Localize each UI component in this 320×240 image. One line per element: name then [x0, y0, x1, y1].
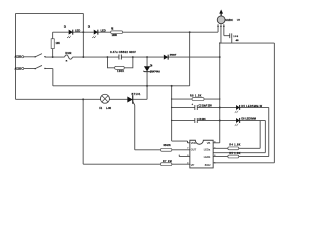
wire row C3 — [172, 119, 261, 121]
svg-text:VDD: VDD — [191, 141, 197, 145]
svg-text:LED: LED — [75, 29, 80, 32]
lamp EL — [99, 94, 111, 110]
svg-text:R7 2M: R7 2M — [163, 161, 172, 163]
svg-text:100R: 100R — [112, 34, 118, 37]
svg-text:C2 10uF 25V: C2 10uF 25V — [198, 105, 212, 108]
LED D2 — [88, 26, 106, 38]
wire R1 branch — [52, 32, 54, 57]
wire regulator pin left — [217, 24, 219, 32]
svg-text:1N4744A: 1N4744A — [150, 71, 160, 74]
wire top edge — [16, 12, 84, 14]
svg-text:OUT: OUT — [191, 148, 197, 152]
wire triac gate to IC pin2 — [135, 105, 190, 150]
wire bottom lamp rail — [16, 98, 148, 100]
resistor R4 1.8K — [228, 144, 241, 150]
svg-text:R6 4.7K: R6 4.7K — [164, 145, 171, 147]
wire lamp junction drop — [82, 99, 84, 164]
LED D5 — [235, 105, 263, 113]
switch S1 blade — [35, 54, 42, 57]
capacitor C2 electrolytic — [192, 103, 213, 110]
svg-text:103: 103 — [233, 36, 239, 38]
wire LED D5 to R4 — [213, 107, 269, 156]
terminal AC220 L — [15, 56, 24, 59]
svg-text:R8 1.5K: R8 1.5K — [190, 95, 202, 98]
resistor R1 — [51, 39, 60, 49]
resistor R6 4.7K — [160, 145, 171, 151]
terminal AC220 N — [15, 67, 24, 70]
diode D3 — [164, 54, 177, 59]
fuse F1 wavy — [64, 55, 72, 59]
wire main mid rail — [24, 56, 220, 58]
resistor R7 2M — [160, 161, 171, 165]
wire row R8 — [172, 98, 220, 100]
wire VCC rail — [213, 43, 274, 163]
wire vertical x83 — [82, 13, 84, 57]
AC/DC module U2 — [217, 9, 240, 27]
wire right bus — [213, 43, 220, 143]
wire regulator pin middle — [220, 24, 222, 43]
LED D1 — [64, 26, 80, 38]
resistor R5 1.8K — [228, 152, 241, 158]
switch S1 contacts — [34, 56, 45, 58]
svg-text:1N4007: 1N4007 — [170, 54, 177, 56]
svg-text:L-60: L-60 — [106, 107, 112, 110]
capacitor C1 bypass loop — [107, 57, 132, 68]
svg-text:VP: VP — [191, 163, 195, 167]
wire regulator pin right — [224, 24, 232, 43]
switch S2 contacts — [34, 68, 45, 70]
svg-text:VB: VB — [207, 141, 211, 145]
svg-text:8022: 8022 — [205, 163, 211, 167]
junction dots — [52, 31, 221, 121]
svg-text:0.47u CBB22 400V: 0.47u CBB22 400V — [110, 50, 136, 54]
svg-text:LEDb: LEDb — [204, 155, 211, 159]
svg-text:D5 LED5MM-W: D5 LED5MM-W — [241, 105, 262, 108]
capacitor C5 — [230, 33, 240, 42]
svg-text:LEDa: LEDa — [204, 148, 211, 152]
wire left edge — [15, 13, 17, 99]
zener branch wire — [146, 57, 148, 99]
svg-text:R5 1.8K: R5 1.8K — [229, 152, 240, 155]
zener D4 — [143, 65, 160, 73]
triac Q1 BT131 — [127, 93, 141, 105]
svg-text:AC220: AC220 — [15, 56, 22, 59]
wire IC pin3 stub — [179, 155, 190, 157]
LED D6 — [235, 118, 256, 126]
svg-text:D6 LED5MM: D6 LED5MM — [241, 118, 256, 121]
svg-text:R4 1.8K: R4 1.8K — [229, 144, 240, 147]
wire bottom row to IC pin4 — [83, 163, 190, 165]
svg-text:10K: 10K — [55, 42, 60, 45]
wire row C2 — [172, 106, 269, 108]
IC U1 — [187, 140, 216, 168]
capacitor C3 — [195, 118, 206, 123]
resistor R8 row — [190, 95, 204, 101]
capacitor CX 0.47u — [110, 50, 136, 59]
svg-text:AC220: AC220 — [15, 68, 22, 71]
svg-text:R10k: R10k — [65, 52, 72, 55]
wire AC2 row — [24, 68, 53, 70]
resistor R3 bypass — [115, 66, 125, 73]
resistor R2 — [111, 28, 123, 37]
wire LED D6 to R3 — [213, 120, 260, 148]
wire LED row — [53, 31, 218, 33]
svg-text:LED: LED — [101, 29, 106, 32]
wire mid link — [213, 120, 265, 152]
switch S2 blade — [35, 65, 42, 68]
wire left bus to IC pin1 — [172, 86, 190, 143]
wire neutral path — [53, 32, 190, 86]
svg-text:AC/DC: AC/DC — [225, 18, 233, 22]
svg-text:100K: 100K — [117, 70, 124, 73]
svg-text:C3 104: C3 104 — [198, 118, 206, 121]
svg-text:BT131: BT131 — [132, 93, 141, 96]
